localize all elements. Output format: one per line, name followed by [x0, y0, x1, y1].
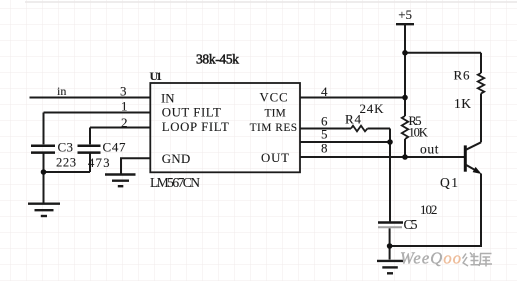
svg-text:IN: IN: [161, 91, 175, 105]
svg-text:C3: C3: [58, 139, 74, 154]
svg-text:TIM: TIM: [265, 107, 286, 119]
svg-text:4: 4: [321, 84, 328, 99]
svg-text:+5: +5: [398, 7, 412, 22]
svg-text:3: 3: [120, 84, 127, 99]
svg-text:102: 102: [420, 202, 437, 217]
svg-text:10K: 10K: [409, 126, 428, 140]
svg-text:24K: 24K: [360, 101, 385, 116]
svg-text:OUT: OUT: [261, 151, 289, 165]
svg-text:5: 5: [321, 126, 328, 141]
svg-text:38k-45k: 38k-45k: [196, 51, 239, 66]
svg-text:2: 2: [121, 115, 128, 130]
svg-text:Q1: Q1: [440, 175, 458, 190]
svg-text:in: in: [57, 84, 66, 98]
svg-text:U1: U1: [150, 69, 163, 83]
svg-text:8: 8: [321, 140, 328, 155]
svg-text:223: 223: [56, 155, 76, 169]
svg-text:1K: 1K: [454, 96, 471, 111]
svg-text:GND: GND: [162, 152, 191, 166]
svg-text:LOOP FILT: LOOP FILT: [162, 120, 229, 134]
svg-text:TIM RES: TIM RES: [250, 122, 298, 134]
svg-text:WeeQoo: WeeQoo: [400, 249, 461, 268]
svg-text:C5: C5: [404, 217, 418, 232]
svg-text:OUT FILT: OUT FILT: [162, 105, 221, 119]
svg-text:R6: R6: [454, 67, 471, 82]
svg-text:473: 473: [88, 156, 110, 170]
svg-text:C47: C47: [103, 139, 127, 154]
svg-text:R4: R4: [345, 112, 362, 127]
svg-text:LM567CN: LM567CN: [150, 175, 200, 190]
svg-text:1: 1: [121, 99, 128, 114]
svg-text:VCC: VCC: [260, 91, 288, 105]
svg-text:out: out: [420, 142, 439, 157]
